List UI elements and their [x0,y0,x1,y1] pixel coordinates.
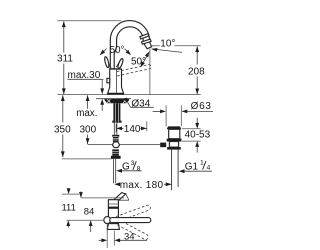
dim 208 [196,46,198,64]
hose fitting 2 [112,149,119,155]
svg-text:208: 208 [188,66,205,77]
solid lever [110,218,151,223]
drain cylinder [169,129,180,138]
lever knob left [104,56,110,68]
spout bands [140,34,149,39]
spout from front [110,193,126,205]
svg-text:34: 34 [124,231,135,242]
lever arms [106,60,122,69]
body [108,69,124,93]
dim 140 [115,124,117,132]
svg-text:Ø34: Ø34 [131,99,150,110]
drain flange [167,126,182,129]
svg-text:max.: max. [76,108,97,119]
dim 350 [62,95,64,122]
drain mid body [169,142,178,148]
dim 34 [106,224,108,248]
dim 111 / 84 refs [62,193,79,195]
svg-text:311: 311 [57,53,73,64]
svg-text:Ø63: Ø63 [191,101,212,112]
drain ring1 [167,139,182,142]
deck top line [57,94,200,96]
tailpipe [172,150,179,191]
hose fitting 1 [112,135,119,137]
svg-text:50°: 50° [109,45,124,56]
svg-text:4: 4 [207,165,211,172]
lever knob right [117,58,124,69]
dim O63 [165,105,167,126]
supply pipe [114,159,116,184]
dim 311 [57,20,121,22]
drain ring2 [167,147,181,150]
spout arc [110,21,151,69]
deck bottom line [96,98,131,100]
button nub [107,78,110,82]
svg-text:max. 180: max. 180 [120,180,164,191]
svg-text:111: 111 [61,202,75,213]
dim max.300 [87,95,89,109]
svg-text:1: 1 [200,160,204,167]
svg-text:84: 84 [84,207,95,218]
rod lug [160,143,166,148]
base foot [107,93,124,95]
hex nut [112,142,119,148]
svg-text:350: 350 [54,125,71,136]
body front [108,200,118,224]
mounting nut [105,99,129,104]
svg-text:140: 140 [124,124,141,135]
dim 40-53 [182,128,201,130]
svg-text:8: 8 [137,165,141,172]
hoses [114,123,117,135]
shank column [113,103,120,121]
svg-text:40-53: 40-53 [185,130,211,141]
svg-text:300: 300 [79,125,96,136]
upper dashed lever position [116,204,151,221]
outlet projection line [149,49,151,95]
dashed lever horizontal [117,65,151,76]
pop-up rod [88,144,113,146]
dim 10deg [151,45,160,47]
lower dashed lever position [115,219,149,240]
svg-text:10°: 10° [160,38,175,49]
pivot ball [104,217,111,224]
